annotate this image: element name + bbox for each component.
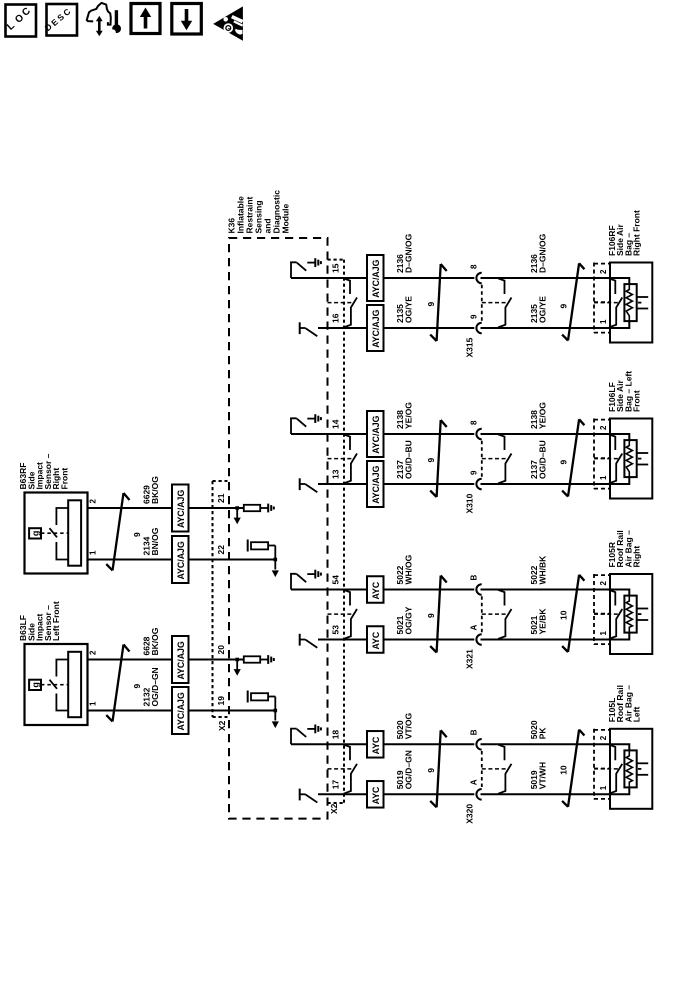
- air bag F106RF outer box: [610, 263, 652, 343]
- connector code box AYC/AJG (wire 2138): [367, 411, 384, 457]
- connector code box AYC/AJG (wire 2136): [367, 255, 384, 301]
- svg-text:OG/YE: OG/YE: [404, 296, 414, 323]
- connector code box AYC/AJG (wire 2137): [367, 461, 384, 507]
- svg-text:2: 2: [599, 581, 608, 586]
- air bag F105L squib resistor: [626, 751, 632, 787]
- sensor B63LF outer box: [25, 644, 88, 725]
- svg-text:g: g: [31, 682, 41, 688]
- connector X2 left dotted boundary: [212, 481, 214, 717]
- connector code box AYC (wire 5021): [367, 626, 384, 653]
- svg-text:18: 18: [331, 730, 341, 740]
- svg-text:X2: X2: [329, 803, 339, 814]
- svg-text:YE/BK: YE/BK: [538, 608, 548, 635]
- svg-text:1: 1: [599, 475, 608, 480]
- svg-text:PK: PK: [538, 727, 548, 740]
- svg-text:Front: Front: [632, 390, 642, 412]
- svg-text:AYC/AJG: AYC/AJG: [371, 259, 381, 297]
- connector code box AYC/AJG (wire 2135): [367, 305, 384, 351]
- harness slash sensor B63LF (9 wires): [124, 645, 130, 652]
- inline connector X321 dashed boundary: [481, 596, 483, 633]
- svg-text:X320: X320: [465, 804, 475, 824]
- svg-text:19: 19: [216, 696, 226, 706]
- wire 2135 OG/YE (inline connector to air bag): [481, 321, 630, 328]
- svg-text:X315: X315: [465, 337, 475, 357]
- air bag F106RF connector dashed boundary: [593, 263, 595, 334]
- svg-text:g: g: [31, 531, 41, 537]
- svg-text:AYC/AJG: AYC/AJG: [371, 415, 381, 453]
- air bag F106LF inflator prongs: [637, 452, 649, 454]
- svg-text:AYC: AYC: [371, 736, 381, 754]
- module shorting-bar stub at pins 14/13: [344, 434, 350, 450]
- inline connector X320 terminal (wire 5020): [476, 739, 481, 750]
- sensor B63LF accelerometer g-cell: [29, 680, 41, 690]
- harness slash left (9 wires): [441, 730, 447, 737]
- svg-text:9: 9: [426, 458, 436, 463]
- svg-text:2: 2: [89, 499, 98, 504]
- icon vehicle view triangle: [213, 6, 243, 40]
- svg-text:10: 10: [559, 765, 569, 775]
- svg-text:1: 1: [599, 785, 608, 790]
- connector code box AYC (wire 5020): [367, 731, 384, 758]
- svg-text:2: 2: [599, 269, 608, 274]
- svg-text:9: 9: [559, 460, 569, 465]
- svg-text:VT/OG: VT/OG: [404, 712, 414, 739]
- air bag F105R connector dashed boundary: [593, 574, 595, 645]
- sensor B63RF outer box: [25, 493, 88, 574]
- svg-text:53: 53: [331, 625, 341, 635]
- inline connector X320 dashed boundary: [481, 751, 483, 788]
- svg-text:17: 17: [331, 780, 341, 790]
- module sense supply circuit (pin 22): [247, 540, 249, 552]
- svg-text:10: 10: [559, 610, 569, 620]
- module ground symbol (pin 54): [307, 573, 315, 575]
- svg-text:BK/OG: BK/OG: [150, 476, 160, 504]
- air bag F106RF shorting-bar stub: [609, 278, 615, 294]
- air bag F105R outer box: [610, 574, 652, 654]
- inline connector X310 dashed boundary: [481, 441, 483, 478]
- air bag F106RF squib resistor: [626, 285, 632, 321]
- connector code box AYC/AJG (wire 6628): [172, 636, 189, 683]
- svg-text:OG/D–GN: OG/D–GN: [404, 750, 414, 789]
- sensor B63RF dashed actuation line: [41, 532, 68, 534]
- svg-text:Right: Right: [632, 546, 642, 568]
- sensor B63LF inertia switch blade: [50, 680, 58, 689]
- svg-text:22: 22: [216, 545, 226, 555]
- svg-text:AYC: AYC: [371, 786, 381, 804]
- svg-text:2: 2: [599, 735, 608, 740]
- svg-text:Left Front: Left Front: [51, 601, 61, 641]
- svg-text:D–GN/OG: D–GN/OG: [538, 233, 548, 273]
- air bag F105R squib housing: [624, 596, 636, 633]
- module shorting-bar stub at pins 18/17: [344, 745, 350, 761]
- icon down-arrow button: [172, 4, 202, 35]
- connector code box AYC (wire 5019): [367, 781, 384, 808]
- svg-text:A: A: [470, 625, 479, 631]
- module deploy switch to ground (pin 54): [291, 574, 297, 590]
- module deploy switch to ground (pin 18): [291, 729, 297, 745]
- module K36 dashed outline: [229, 238, 328, 819]
- module deploy switch to ground (pin 15): [291, 262, 297, 278]
- module ground symbol (pin 15): [307, 262, 315, 264]
- svg-text:AYC: AYC: [371, 581, 381, 599]
- module shorting-bar stub at pins 15/16: [344, 278, 350, 294]
- svg-text:1: 1: [599, 319, 608, 324]
- svg-text:WH/BK: WH/BK: [538, 555, 548, 585]
- sensor B63RF wires to module: [81, 507, 244, 509]
- svg-text:8: 8: [470, 420, 479, 425]
- air bag F106RF squib housing: [624, 284, 636, 321]
- svg-text:Front: Front: [60, 468, 70, 490]
- svg-text:Right Front: Right Front: [632, 210, 642, 256]
- wire 2138 YE/OG (pin 14 to inline connector): [291, 433, 474, 435]
- module deploy switch to supply (pin 53): [299, 634, 301, 646]
- svg-text:13: 13: [331, 469, 341, 479]
- svg-text:Left: Left: [632, 707, 642, 723]
- svg-text:16: 16: [331, 313, 341, 323]
- connector code box AYC/AJG (wire 6629): [172, 485, 189, 532]
- svg-text:2: 2: [89, 650, 98, 655]
- svg-text:2: 2: [599, 425, 608, 430]
- svg-text:AYC/AJG: AYC/AJG: [176, 641, 186, 679]
- wire 2137 OG/D–BU (inline connector to air bag): [481, 477, 630, 484]
- sensor B63RF accelerometer g-cell: [29, 528, 41, 538]
- inline connector X310 terminal (wire 2138): [476, 429, 481, 440]
- wire 5020 VT/OG (pin 18 to inline connector): [291, 743, 474, 745]
- svg-text:VT/WH: VT/WH: [538, 762, 548, 789]
- svg-text:X310: X310: [465, 493, 475, 513]
- svg-text:D–GN/OG: D–GN/OG: [404, 233, 414, 273]
- svg-text:9: 9: [559, 304, 569, 309]
- inline connector X310 shorting-bar stub: [498, 434, 504, 450]
- sensor B63RF internal bracket: [56, 508, 68, 525]
- module ground symbol (pin 14): [307, 418, 315, 420]
- svg-text:OG/YE: OG/YE: [538, 296, 548, 323]
- air bag F105L connector dashed boundary: [593, 729, 595, 800]
- svg-text:AYC/AJG: AYC/AJG: [176, 490, 186, 528]
- svg-text:WH/OG: WH/OG: [404, 554, 414, 584]
- air bag F106LF connector dashed boundary: [593, 419, 595, 490]
- svg-text:AYC/AJG: AYC/AJG: [371, 309, 381, 347]
- svg-text:8: 8: [470, 264, 479, 269]
- module sense resistor circuit (pin 21): [235, 506, 239, 510]
- svg-text:15: 15: [331, 263, 341, 273]
- module deploy switch to ground (pin 14): [291, 418, 297, 434]
- air bag F105R inflator prongs: [637, 608, 649, 610]
- air bag F106LF outer box: [610, 419, 652, 499]
- module sense supply circuit (pin 19): [247, 691, 249, 703]
- air bag F106LF squib resistor: [626, 441, 632, 477]
- sensor B63LF internal connector bar: [68, 652, 81, 717]
- svg-text:AYC/AJG: AYC/AJG: [176, 692, 186, 730]
- inline connector X315 dashed boundary: [481, 285, 483, 322]
- wire 2136 D–GN/OG (pin 15 to inline connector): [291, 277, 474, 279]
- wire 5019 VT/WH (inline connector to air bag): [481, 787, 630, 794]
- wire 5022 WH/OG (pin 54 to inline connector): [291, 589, 474, 591]
- connector X2 right dotted boundary: [343, 260, 345, 803]
- svg-text:OG/GY: OG/GY: [404, 606, 414, 634]
- sensor B63LF internal bracket: [56, 660, 68, 677]
- wire 2138 YE/OG (inline connector to air bag): [481, 434, 630, 440]
- inline connector X315 shorting-bar stub: [498, 278, 504, 294]
- harness slash right (9 wires): [579, 419, 584, 425]
- svg-text:20: 20: [216, 645, 226, 655]
- wire 2135 OG/YE (pin 16 to inline connector): [318, 327, 474, 329]
- harness slash left (9 wires): [441, 420, 447, 427]
- sensor B63RF inertia switch blade: [50, 528, 58, 537]
- module ground symbol (pin 18): [307, 728, 315, 730]
- inline connector X321 terminal (wire 5021): [476, 634, 481, 645]
- wire 5020 PK (inline connector to air bag): [481, 744, 630, 750]
- icon vehicle lift with wrench: [87, 3, 111, 25]
- svg-text:B: B: [470, 575, 479, 581]
- air bag F105R shorting-bar stub: [609, 590, 615, 606]
- inline connector X321 terminal (wire 5022): [476, 584, 481, 595]
- svg-text:9: 9: [132, 684, 142, 689]
- svg-text:YE/OG: YE/OG: [404, 402, 414, 429]
- sensor B63LF wires to module: [81, 659, 244, 661]
- sensor B63RF internal connector bar: [68, 500, 81, 565]
- svg-text:BN/OG: BN/OG: [150, 527, 160, 555]
- module deploy switch to supply (pin 17): [299, 789, 301, 801]
- air bag F106RF inflator prongs: [637, 296, 649, 298]
- svg-text:Module: Module: [280, 203, 290, 233]
- inline connector X315 terminal (wire 2135): [476, 323, 481, 334]
- wire 5021 YE/BK (inline connector to air bag): [481, 633, 630, 640]
- air bag F105L squib housing: [624, 750, 636, 787]
- svg-text:9: 9: [426, 302, 436, 307]
- svg-text:1: 1: [599, 631, 608, 636]
- harness slash sensor B63RF (9 wires): [124, 493, 130, 500]
- harness slash right (9 wires): [579, 263, 584, 269]
- svg-text:AYC/AJG: AYC/AJG: [371, 465, 381, 503]
- module ground (pin 20): [260, 659, 268, 661]
- svg-text:B: B: [470, 729, 479, 735]
- svg-text:OG/D–BU: OG/D–BU: [538, 440, 548, 479]
- wire 2137 OG/D–BU (pin 13 to inline connector): [318, 483, 474, 485]
- inline connector X320 terminal (wire 5019): [476, 789, 481, 800]
- connector code box AYC/AJG (wire 2134): [172, 536, 189, 583]
- svg-text:9: 9: [470, 470, 479, 475]
- icon LOC button: [6, 5, 37, 37]
- svg-text:YE/OG: YE/OG: [538, 402, 548, 429]
- icon up-arrow button: [131, 4, 160, 34]
- inline connector X321 shorting-bar stub: [498, 590, 504, 606]
- inline connector X315 terminal (wire 2136): [476, 273, 481, 284]
- harness slash right (10 wires): [579, 575, 584, 581]
- svg-text:9: 9: [470, 314, 479, 319]
- svg-text:9: 9: [132, 532, 142, 537]
- harness slash left (9 wires): [441, 264, 447, 271]
- inline connector X320 shorting-bar stub: [498, 745, 504, 761]
- wire 5019 OG/D–GN (pin 17 to inline connector): [318, 793, 474, 795]
- icon DESC button: [47, 4, 78, 36]
- svg-text:9: 9: [426, 613, 436, 618]
- module shorting-bar stub at pins 54/53: [344, 590, 350, 606]
- module ground (pin 21): [260, 507, 268, 509]
- svg-text:54: 54: [331, 575, 341, 585]
- svg-text:A: A: [470, 779, 479, 785]
- svg-text:AYC: AYC: [371, 631, 381, 649]
- air bag F105L outer box: [610, 729, 652, 809]
- svg-text:OG/D–BU: OG/D–BU: [404, 440, 414, 479]
- svg-text:OG/D–GN: OG/D–GN: [150, 667, 160, 706]
- air bag F106LF squib housing: [624, 440, 636, 477]
- svg-text:X2: X2: [217, 720, 227, 731]
- svg-text:21: 21: [216, 493, 226, 503]
- inline connector X310 terminal (wire 2137): [476, 479, 481, 490]
- module deploy switch to supply (pin 13): [299, 478, 301, 490]
- svg-text:1: 1: [89, 550, 98, 555]
- connector code box AYC/AJG (wire 2132): [172, 687, 189, 734]
- air bag F105L shorting-bar stub: [609, 745, 615, 761]
- harness slash left (9 wires): [441, 576, 447, 583]
- wire 2136 D–GN/OG (inline connector to air bag): [481, 278, 630, 284]
- svg-text:14: 14: [331, 419, 341, 429]
- svg-text:9: 9: [426, 768, 436, 773]
- air bag F105L inflator prongs: [637, 762, 649, 764]
- air bag F105R squib resistor: [626, 596, 632, 632]
- svg-text:AYC/AJG: AYC/AJG: [176, 541, 186, 579]
- sensor B63LF dashed actuation line: [41, 684, 68, 686]
- svg-text:1: 1: [89, 701, 98, 706]
- svg-text:X321: X321: [465, 649, 475, 669]
- air bag F106LF shorting-bar stub: [609, 434, 615, 450]
- module sense resistor circuit (pin 20): [235, 658, 239, 662]
- harness slash right (10 wires): [579, 730, 584, 736]
- wire 5022 WH/BK (inline connector to air bag): [481, 590, 630, 596]
- svg-text:BK/OG: BK/OG: [150, 627, 160, 655]
- module deploy switch to supply (pin 16): [299, 322, 301, 334]
- connector code box AYC (wire 5022): [367, 576, 384, 603]
- wire 5021 OG/GY (pin 53 to inline connector): [318, 639, 474, 641]
